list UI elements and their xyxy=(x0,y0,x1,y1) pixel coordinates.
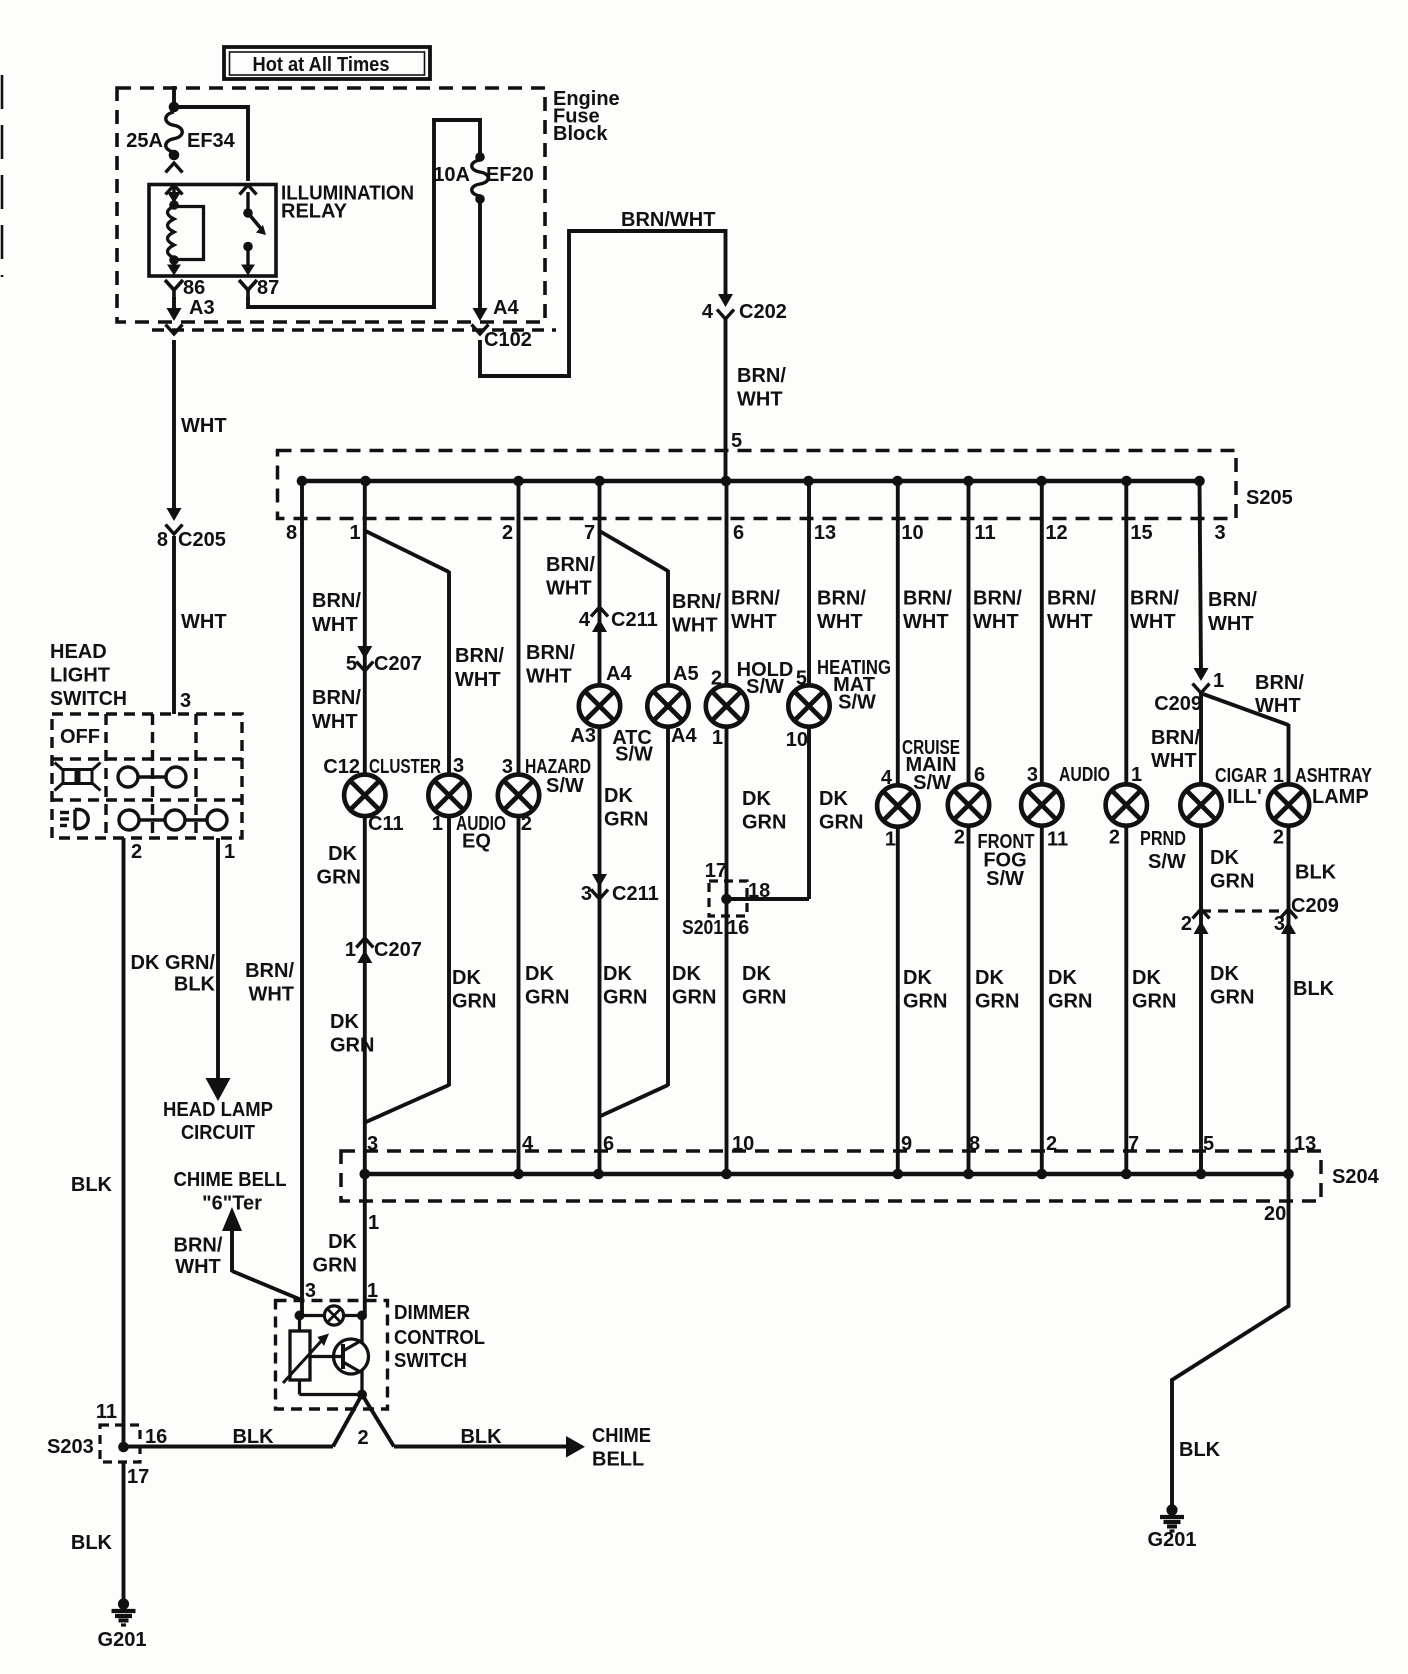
svg-text:20: 20 xyxy=(1264,1203,1286,1225)
svg-text:Block: Block xyxy=(553,123,608,145)
connector C207 pin 1 xyxy=(345,938,422,963)
svg-text:DK: DK xyxy=(819,788,848,810)
label BRN/WHT audio xyxy=(1047,588,1096,634)
label BRN/WHT col8 upper xyxy=(312,590,361,636)
svg-text:10: 10 xyxy=(786,729,808,751)
svg-text:WHT: WHT xyxy=(903,611,949,633)
label CIGAR ILL xyxy=(1215,765,1267,808)
svg-text:WHT: WHT xyxy=(526,666,572,688)
svg-text:25A: 25A xyxy=(126,130,163,152)
svg-text:DIMMER: DIMMER xyxy=(394,1302,471,1324)
wire S203 to dimmer BLK xyxy=(124,1445,334,1449)
svg-text:1: 1 xyxy=(345,939,356,961)
svg-text:2: 2 xyxy=(954,827,965,849)
svg-text:WHT: WHT xyxy=(312,614,358,636)
label DK GRN cigar xyxy=(1210,847,1254,893)
svg-text:15: 15 xyxy=(1130,522,1152,544)
label FRONT FOG S/W xyxy=(978,831,1035,890)
S204 pin 10 label xyxy=(732,1133,754,1155)
wire S205 pin13 heating xyxy=(807,481,811,685)
svg-text:GRN: GRN xyxy=(313,1255,357,1277)
S204 pin 13 label xyxy=(1294,1133,1316,1155)
svg-text:BLK: BLK xyxy=(232,1426,274,1448)
wire diagonal C209 to ashtray xyxy=(1203,694,1289,725)
svg-text:C207: C207 xyxy=(374,939,422,961)
svg-text:S/W: S/W xyxy=(615,744,653,766)
hold pin 1 label xyxy=(712,727,723,749)
S205 bus wire xyxy=(298,479,1201,483)
label BRN/WHT atc2 xyxy=(672,591,721,637)
svg-text:3: 3 xyxy=(1274,913,1285,935)
S205 pin labels xyxy=(286,522,1226,544)
svg-text:2: 2 xyxy=(357,1427,368,1449)
svg-text:S201: S201 xyxy=(682,917,723,939)
svg-text:GRN: GRN xyxy=(1210,871,1254,893)
svg-text:GRN: GRN xyxy=(975,991,1019,1013)
connector C102 dashed line xyxy=(152,329,556,351)
svg-text:BRN/: BRN/ xyxy=(312,687,361,709)
wire S205 pin10 cruise xyxy=(896,481,900,785)
svg-text:86: 86 xyxy=(183,277,205,299)
wire fog down to S204 pin8 xyxy=(967,826,971,1174)
svg-text:S/W: S/W xyxy=(746,676,784,698)
ATC pin A4 label xyxy=(606,663,632,685)
svg-text:BRN/: BRN/ xyxy=(737,365,786,387)
svg-text:BRN/: BRN/ xyxy=(903,588,952,610)
label Engine Fuse Block xyxy=(553,88,620,145)
wire audio EQ down xyxy=(447,816,451,1086)
wire chime branch diagonal xyxy=(232,1271,302,1300)
S204 pin 2 label xyxy=(1046,1133,1057,1155)
scan artifact edge mark xyxy=(1,75,4,277)
svg-text:DK: DK xyxy=(1048,967,1077,989)
svg-text:GRN: GRN xyxy=(742,812,786,834)
svg-text:WHT: WHT xyxy=(731,611,777,633)
svg-text:8: 8 xyxy=(286,522,297,544)
wire cigar lamp down xyxy=(1199,826,1203,1174)
svg-text:GRN: GRN xyxy=(604,809,648,831)
svg-text:2: 2 xyxy=(1109,827,1120,849)
audio pin 11 label xyxy=(1047,829,1068,851)
S204 pin 8 label xyxy=(969,1133,980,1155)
wire C202 to S205 pin 5 xyxy=(724,319,728,481)
lamp CLUSTER C12/C11 xyxy=(344,775,385,816)
arrow to head lamp circuit xyxy=(206,1078,231,1101)
svg-text:DK GRN/: DK GRN/ xyxy=(131,952,216,974)
svg-text:BRN/: BRN/ xyxy=(174,1235,223,1257)
label DK GRN col1 mid xyxy=(317,843,361,889)
wire ATC1 down to S204 pin6 xyxy=(598,727,602,1174)
svg-text:WHT: WHT xyxy=(546,578,592,600)
dimmer rheostat xyxy=(283,1316,329,1395)
headlamp icon xyxy=(60,810,88,829)
svg-text:AUDIO: AUDIO xyxy=(1059,764,1110,786)
wire C205 to headlight switch xyxy=(172,536,176,714)
lamp CIGAR ILLUMINATION xyxy=(1180,784,1221,825)
svg-text:DK: DK xyxy=(328,843,357,865)
svg-text:GRN: GRN xyxy=(742,987,786,1009)
pin 87 xyxy=(239,277,279,299)
svg-text:BRN/: BRN/ xyxy=(1047,588,1096,610)
svg-text:S/W: S/W xyxy=(546,775,584,797)
svg-text:1: 1 xyxy=(1213,670,1224,692)
svg-text:GRN: GRN xyxy=(672,987,716,1009)
svg-text:BLK: BLK xyxy=(1295,862,1337,884)
label DK GRN atc mid xyxy=(604,785,648,831)
svg-text:WHT: WHT xyxy=(248,984,294,1006)
svg-text:S204: S204 xyxy=(1332,1166,1380,1188)
label BRN/WHT cigar mid xyxy=(1151,727,1200,772)
svg-text:1: 1 xyxy=(367,1280,378,1302)
wire S204 pin20 to ground xyxy=(1172,1174,1289,1506)
label BRN/WHT audio EQ xyxy=(455,645,504,691)
wire 86 to A3 xyxy=(172,297,176,309)
svg-text:BRN/: BRN/ xyxy=(312,590,361,612)
svg-text:CONTROL: CONTROL xyxy=(394,1327,485,1349)
label OFF xyxy=(60,726,100,748)
wire 87 to fuse EF20 xyxy=(248,120,480,307)
svg-text:BLK: BLK xyxy=(460,1426,502,1448)
pin 5 label S205 xyxy=(731,430,742,452)
connector C202 pin 4 xyxy=(702,294,787,323)
svg-text:LIGHT: LIGHT xyxy=(50,665,110,687)
S204 pin 4 label xyxy=(522,1133,534,1155)
wire feed from hot bus xyxy=(169,86,180,112)
label DK GRN heating xyxy=(819,788,863,834)
wire cigar to lamp xyxy=(1199,693,1203,785)
label DK GRN/ BLK xyxy=(131,952,216,996)
prnd pin 1 label xyxy=(1131,764,1142,786)
svg-text:WHT: WHT xyxy=(817,611,863,633)
svg-text:BLK: BLK xyxy=(1293,978,1335,1000)
svg-text:WHT: WHT xyxy=(1151,750,1197,772)
svg-text:1: 1 xyxy=(1131,764,1142,786)
wire S205 pin6 hold xyxy=(725,481,729,685)
switch contacts row head xyxy=(119,810,227,830)
dimmer pin 2 V exit xyxy=(333,1395,394,1447)
wire ATC2 vertical xyxy=(666,570,670,685)
svg-text:WHT: WHT xyxy=(737,389,783,411)
svg-text:SWITCH: SWITCH xyxy=(50,688,127,710)
wire dimmer to chime bell BLK xyxy=(394,1445,567,1449)
S204 pin 9 label xyxy=(901,1133,912,1155)
hold pin 2 label xyxy=(711,668,722,690)
svg-text:BRN/: BRN/ xyxy=(1208,589,1257,611)
svg-text:CHIME BELL: CHIME BELL xyxy=(174,1169,287,1191)
svg-text:PRND: PRND xyxy=(1140,828,1186,850)
wire prnd down to S204 pin7 xyxy=(1124,826,1128,1174)
svg-text:EF34: EF34 xyxy=(187,130,236,152)
svg-text:GRN: GRN xyxy=(603,987,647,1009)
heating pin 5 label xyxy=(796,668,807,690)
svg-text:1: 1 xyxy=(349,522,360,544)
label BLK mid left xyxy=(232,1426,274,1448)
S205 bus junction dots xyxy=(297,476,1205,487)
wire A3 down to C205 xyxy=(172,340,176,510)
label BRN/WHT fog xyxy=(973,588,1022,634)
lamp HEATING MAT S/W xyxy=(788,685,829,726)
label BRN/ WHT chime xyxy=(174,1235,223,1279)
svg-text:CHIME: CHIME xyxy=(592,1425,651,1447)
svg-text:C209: C209 xyxy=(1291,895,1339,917)
svg-text:1: 1 xyxy=(712,727,723,749)
svg-text:11: 11 xyxy=(96,1401,117,1423)
svg-text:BLK: BLK xyxy=(174,974,216,996)
svg-text:DK: DK xyxy=(975,967,1004,989)
svg-text:BRN/: BRN/ xyxy=(1255,672,1304,694)
arrow chime bell xyxy=(566,1436,585,1458)
headlight switch pin 3 label xyxy=(180,690,191,712)
svg-text:4: 4 xyxy=(702,301,714,323)
svg-text:1: 1 xyxy=(885,829,896,851)
svg-text:GRN: GRN xyxy=(452,991,496,1013)
svg-text:RELAY: RELAY xyxy=(281,201,348,223)
label PRND S/W xyxy=(1140,828,1186,873)
svg-text:A4: A4 xyxy=(671,725,697,747)
dimmer pin 2 label xyxy=(357,1427,368,1449)
splice S204 enclosure xyxy=(341,1151,1321,1201)
label BRN/WHT hazard xyxy=(526,642,575,688)
wire S205 pin1 to cluster lamp xyxy=(363,481,367,775)
svg-text:WHT: WHT xyxy=(312,711,358,733)
svg-text:2: 2 xyxy=(521,813,532,835)
svg-text:G201: G201 xyxy=(1148,1529,1197,1551)
label DK GRN hold lower xyxy=(742,963,786,1009)
svg-text:11: 11 xyxy=(974,522,995,544)
svg-text:DK: DK xyxy=(525,963,554,985)
svg-text:C102: C102 xyxy=(484,329,532,351)
label BRN/WHT heating xyxy=(817,588,866,634)
wire heating down to S201 xyxy=(727,727,810,899)
relay switch contact xyxy=(240,185,267,276)
label C11 xyxy=(368,813,404,835)
svg-text:A4: A4 xyxy=(493,297,519,319)
S204 pin 6 label xyxy=(603,1133,614,1155)
pin A3 connector xyxy=(166,297,215,334)
svg-text:WHT: WHT xyxy=(175,1256,221,1278)
wire S205 pin12 audio xyxy=(1040,481,1044,784)
svg-text:GRN: GRN xyxy=(903,991,947,1013)
svg-text:16: 16 xyxy=(727,917,749,939)
label DK GRN hazard xyxy=(525,963,569,1009)
wire S205 pin3 cigar upper xyxy=(1200,481,1202,672)
wire audio EQ vertical xyxy=(447,571,451,775)
svg-text:DK: DK xyxy=(742,788,771,810)
svg-text:DK: DK xyxy=(1132,967,1161,989)
wire audio down to S204 pin2 xyxy=(1040,826,1044,1174)
arrow chime bell 6 ter xyxy=(222,1207,242,1272)
svg-text:10: 10 xyxy=(901,522,923,544)
svg-text:EQ: EQ xyxy=(462,831,491,853)
svg-text:BRN/: BRN/ xyxy=(817,588,866,610)
label DK GRN col1 lower xyxy=(330,1011,374,1057)
svg-text:13: 13 xyxy=(814,522,836,544)
heating pin 10 label xyxy=(786,729,808,751)
svg-text:6: 6 xyxy=(974,764,985,786)
fuse EF34 25A xyxy=(126,112,235,173)
lamp FRONT FOG S/W xyxy=(948,784,989,825)
label BRN/WHT prnd xyxy=(1130,588,1179,634)
svg-text:2: 2 xyxy=(1273,827,1284,849)
svg-text:GRN: GRN xyxy=(1132,991,1176,1013)
wire S205 pin8 BRN/WHT to dimmer xyxy=(300,481,304,1300)
svg-text:BRN/: BRN/ xyxy=(731,588,780,610)
svg-text:CIRCUIT: CIRCUIT xyxy=(181,1122,255,1144)
dimmer pin 1 label xyxy=(367,1280,378,1302)
svg-text:2: 2 xyxy=(502,522,513,544)
svg-text:DK: DK xyxy=(603,963,632,985)
dimmer internal wire top xyxy=(295,1311,368,1321)
audio pin 3 label xyxy=(1027,764,1038,786)
svg-text:GRN: GRN xyxy=(330,1035,374,1057)
wire diagonal ATC2 to S204 pin6 xyxy=(600,1085,669,1117)
S204 bus wire xyxy=(360,1172,1289,1176)
splice S205 enclosure xyxy=(278,451,1237,519)
label DK GRN atc lower xyxy=(603,963,647,1009)
label DK GRN atc2 xyxy=(672,963,716,1009)
connector C211 pin 3 xyxy=(581,874,659,905)
prnd pin 2 label xyxy=(1109,827,1120,849)
splice S203 xyxy=(47,1401,167,1488)
label BLK ashtray lower xyxy=(1293,978,1335,1000)
svg-text:A3: A3 xyxy=(189,297,215,319)
fog pin 6 label xyxy=(974,764,985,786)
svg-text:3: 3 xyxy=(1214,522,1225,544)
svg-text:C202: C202 xyxy=(739,301,787,323)
label BRN/WHT top xyxy=(621,209,715,231)
svg-text:3: 3 xyxy=(180,690,191,712)
svg-text:DK: DK xyxy=(604,785,633,807)
svg-text:2: 2 xyxy=(1181,913,1192,935)
svg-text:DK: DK xyxy=(742,963,771,985)
svg-text:WHT: WHT xyxy=(181,611,227,633)
ATC2 pin A5 label xyxy=(673,663,699,685)
label S204 xyxy=(1332,1166,1380,1188)
relay coil pin 86 exit xyxy=(167,260,181,276)
svg-text:GRN: GRN xyxy=(1210,987,1254,1009)
S204 pin 5 label xyxy=(1203,1133,1214,1155)
wire S205 pin7 ATC xyxy=(598,481,602,685)
ATC pin A3 label xyxy=(570,725,596,747)
svg-text:BRN/: BRN/ xyxy=(455,645,504,667)
label WHT upper xyxy=(181,415,227,437)
svg-text:BRN/: BRN/ xyxy=(1130,588,1179,610)
svg-text:OFF: OFF xyxy=(60,726,100,748)
svg-text:EF20: EF20 xyxy=(486,164,534,186)
wire hold down to S204 pin10 xyxy=(725,727,729,1174)
svg-text:C209: C209 xyxy=(1154,693,1202,715)
relay coil xyxy=(168,185,204,265)
label BRN/WHT cigar top xyxy=(1208,589,1257,635)
label HEAD LIGHT SWITCH xyxy=(50,641,127,710)
lamp AUDIO xyxy=(1021,784,1062,825)
headlight pin 2 label xyxy=(131,841,142,863)
fuse EF20 10A xyxy=(433,152,534,204)
label CHIME BELL right xyxy=(592,1425,651,1471)
wire ATC2 down xyxy=(666,727,670,1086)
svg-text:HEAD LAMP: HEAD LAMP xyxy=(163,1099,273,1121)
label ATC S/W xyxy=(612,727,653,766)
label DK GRN above dimmer xyxy=(313,1231,358,1277)
svg-text:BRN/: BRN/ xyxy=(672,591,721,613)
ashtray pin 2 label xyxy=(1273,827,1284,849)
svg-text:WHT: WHT xyxy=(1255,695,1301,717)
svg-text:8: 8 xyxy=(157,529,168,551)
label DIMMER CONTROL SWITCH xyxy=(394,1302,485,1372)
dimmer internal wire bottom xyxy=(300,1390,368,1400)
label BLK left upper xyxy=(71,1174,113,1196)
label WHT lower xyxy=(181,611,227,633)
label HOLD S/W xyxy=(737,659,794,698)
svg-text:4: 4 xyxy=(579,609,591,631)
audio EQ pin 3 label xyxy=(453,755,464,777)
label BRN/WHT col8 lower xyxy=(245,960,294,1006)
svg-text:10A: 10A xyxy=(433,164,470,186)
svg-text:3: 3 xyxy=(581,883,592,905)
dimmer transistor xyxy=(310,1316,369,1395)
svg-text:Hot at All Times: Hot at All Times xyxy=(253,54,390,76)
svg-text:11: 11 xyxy=(1047,829,1068,851)
S204 pin 3 label xyxy=(367,1133,378,1155)
wire S203 to ground xyxy=(122,1462,126,1600)
wire S204 pin1 to dimmer pin1 xyxy=(363,1174,367,1316)
svg-text:BRN/: BRN/ xyxy=(245,960,294,982)
svg-text:17: 17 xyxy=(705,860,727,882)
svg-text:DK: DK xyxy=(672,963,701,985)
label DK GRN cigar lower xyxy=(1210,963,1254,1009)
svg-text:C205: C205 xyxy=(178,529,226,551)
connector C209 pin 2 xyxy=(1181,909,1210,935)
svg-text:A4: A4 xyxy=(606,663,632,685)
switch contacts row park xyxy=(118,767,186,787)
label S205 xyxy=(1246,487,1293,509)
svg-text:7: 7 xyxy=(584,522,595,544)
wire S205 pin11 fog xyxy=(967,481,971,784)
svg-text:CLUSTER: CLUSTER xyxy=(369,756,441,778)
svg-text:WHT: WHT xyxy=(1130,611,1176,633)
svg-text:BRN/WHT: BRN/WHT xyxy=(621,209,715,231)
svg-text:BRN/: BRN/ xyxy=(1151,727,1200,749)
S204 pin 7 label xyxy=(1128,1133,1139,1155)
connector C209 pin 1 xyxy=(1154,668,1224,715)
svg-text:BRN/: BRN/ xyxy=(546,554,595,576)
cruise pin 4 label xyxy=(881,767,893,789)
label AUDIO EQ xyxy=(456,813,506,853)
headlight switch enclosure xyxy=(52,714,242,838)
label DK GRN prnd xyxy=(1132,967,1176,1013)
svg-text:WHT: WHT xyxy=(672,615,718,637)
svg-text:BLK: BLK xyxy=(71,1174,113,1196)
svg-text:DK: DK xyxy=(903,967,932,989)
connector C211 pin 4 xyxy=(579,607,658,632)
svg-text:S/W: S/W xyxy=(986,868,1024,890)
label BLK left lower xyxy=(71,1532,113,1554)
svg-text:A3: A3 xyxy=(570,725,596,747)
fog pin 2 label xyxy=(954,827,965,849)
lamp PRND S/W xyxy=(1106,784,1147,825)
S204 bus junction dots xyxy=(360,1169,1294,1180)
dimmer pin 3 label xyxy=(305,1280,316,1302)
label HEAD LAMP CIRCUIT xyxy=(163,1099,273,1144)
svg-text:HEAD: HEAD xyxy=(50,641,107,663)
label BLK mid right xyxy=(460,1426,502,1448)
label ILLUMINATION RELAY xyxy=(281,183,414,223)
svg-text:GRN: GRN xyxy=(525,987,569,1009)
lamp ATC S/W second xyxy=(647,685,688,726)
svg-text:DK: DK xyxy=(330,1011,359,1033)
wire S205 pin15 prnd xyxy=(1124,481,1128,784)
svg-text:WHT: WHT xyxy=(181,415,227,437)
